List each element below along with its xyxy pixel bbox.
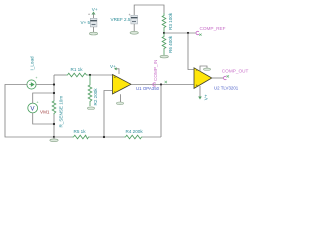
resistor R4 200k xyxy=(124,129,143,139)
wire bottom xyxy=(54,136,72,138)
svg-text:R4 200k: R4 200k xyxy=(126,129,144,134)
resistor R6 400k xyxy=(162,33,173,56)
wire xyxy=(33,113,54,124)
node COMP_REF xyxy=(196,26,226,36)
resistor R_SENSE 10m xyxy=(52,96,63,128)
wire xyxy=(133,24,135,31)
node junction xyxy=(103,136,105,138)
node junction xyxy=(160,83,162,85)
resistor R1 1k xyxy=(66,67,88,77)
ground xyxy=(87,107,94,110)
node COMP_OUT xyxy=(222,69,249,80)
svg-text:R5 1k: R5 1k xyxy=(74,129,87,134)
svg-text:+: + xyxy=(36,101,38,105)
wire xyxy=(33,93,54,103)
svg-text:+: + xyxy=(88,13,90,17)
ground at U2 top pin xyxy=(200,66,211,71)
current source I_Load xyxy=(27,56,38,89)
resistor R3 100k xyxy=(162,12,173,33)
wire xyxy=(164,32,196,34)
node COMP_IN xyxy=(153,60,167,87)
wire xyxy=(143,136,162,138)
wire xyxy=(88,74,112,76)
svg-text:V+: V+ xyxy=(92,7,98,12)
ground xyxy=(89,32,97,35)
svg-text:V+: V+ xyxy=(110,64,116,69)
svg-text:R2 200k: R2 200k xyxy=(93,88,98,106)
V+ flag of U1 xyxy=(110,64,119,74)
svg-text:R1 1k: R1 1k xyxy=(71,67,84,72)
V+ flag at U2 bottom pin xyxy=(198,86,208,100)
node junction xyxy=(53,92,55,94)
wire xyxy=(36,84,54,86)
node junction xyxy=(163,32,165,34)
node junction xyxy=(187,32,189,34)
svg-text:+: + xyxy=(129,13,131,17)
wire xyxy=(93,27,95,33)
svg-text:R_SENSE 10m: R_SENSE 10m xyxy=(59,96,64,128)
voltmeter VM1 xyxy=(28,101,50,115)
wire feedback xyxy=(160,85,162,138)
svg-text:VREF 2.5: VREF 2.5 xyxy=(111,17,131,22)
svg-text:V+ 5: V+ 5 xyxy=(81,20,91,25)
svg-text:COMP_REF: COMP_REF xyxy=(200,26,226,31)
wire COMP_REF to U2 inverting input xyxy=(188,33,194,70)
ground xyxy=(130,31,138,34)
svg-text:+: + xyxy=(35,76,37,80)
resistor R2 200k xyxy=(88,75,98,106)
node junction xyxy=(53,136,55,138)
ground under U1 xyxy=(116,94,123,104)
voltage source VREF 2.5 xyxy=(111,13,138,24)
ground xyxy=(160,55,168,58)
wire inverting input of U1 xyxy=(104,91,112,138)
wire xyxy=(90,136,125,138)
node junction xyxy=(89,74,91,76)
svg-text:V+: V+ xyxy=(203,94,208,100)
svg-text:COMP_IN: COMP_IN xyxy=(153,60,158,81)
resistor R5 1k xyxy=(72,129,90,139)
op-amp U1 OPA350 xyxy=(113,74,160,94)
wire to R1 xyxy=(54,74,66,76)
svg-text:I_Load: I_Load xyxy=(30,56,35,70)
voltage source V+ 5 xyxy=(81,7,98,27)
svg-text:VM1: VM1 xyxy=(40,109,50,114)
svg-text:U2 TLV3201: U2 TLV3201 xyxy=(214,86,239,91)
svg-text:COMP_OUT: COMP_OUT xyxy=(222,69,249,74)
wire U1 output to U2 xyxy=(132,84,194,86)
wire left rail xyxy=(5,85,54,138)
wire sense rail xyxy=(53,75,55,100)
wire xyxy=(134,5,164,15)
wire xyxy=(53,115,55,138)
ground xyxy=(50,137,58,142)
svg-text:R3 100k: R3 100k xyxy=(168,12,173,30)
wire U2 output xyxy=(212,77,224,79)
svg-text:U1 OPA350: U1 OPA350 xyxy=(136,86,160,91)
node junction xyxy=(53,123,55,125)
svg-text:R6 400k: R6 400k xyxy=(168,35,173,53)
node junction xyxy=(53,83,55,85)
comparator U2 TLV3201 xyxy=(194,68,239,91)
